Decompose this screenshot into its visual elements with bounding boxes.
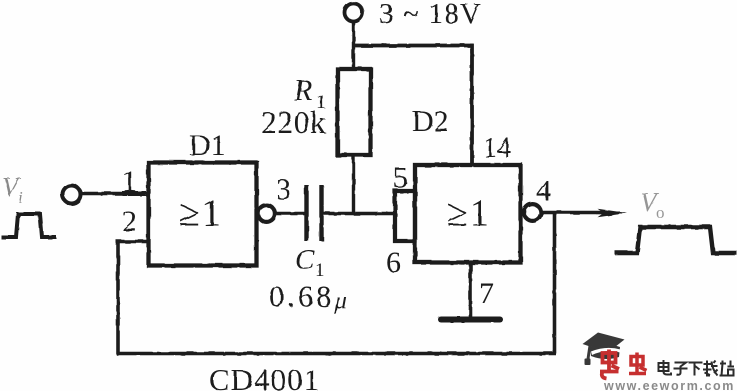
zi (674, 363, 688, 375)
wire bubble to C1 (275, 212, 305, 215)
D2 input tie bracket pins 5,6 (395, 191, 415, 241)
label Vo (640, 187, 665, 222)
svg-text:≥1: ≥1 (447, 193, 491, 235)
D1 output bubble pin 3 (258, 205, 275, 222)
pin 1 tick (122, 191, 146, 196)
zhan (720, 361, 735, 376)
wire R1 bottom to node (352, 155, 355, 214)
svg-text:14: 14 (483, 133, 511, 164)
svg-text:5: 5 (393, 162, 408, 195)
wire C1 to D2 inputs (323, 212, 395, 215)
red worm char 1 (600, 350, 647, 379)
label Vi (2, 172, 23, 207)
svg-text:2: 2 (122, 205, 137, 238)
svg-text:3: 3 (276, 173, 291, 206)
svg-text:www.eeworm.com: www.eeworm.com (603, 379, 735, 391)
svg-text:≥1: ≥1 (179, 193, 223, 235)
capacitor C1 (304, 185, 308, 241)
resistor R1 (338, 69, 371, 155)
svg-text:0.68μ: 0.68μ (269, 280, 350, 315)
pin 7 wire (469, 263, 473, 319)
nor gate D1 (149, 163, 257, 266)
nor gate D2 (415, 165, 521, 263)
feedback wire left vertical (116, 242, 120, 356)
wire input to D1 pin 1 (81, 192, 148, 196)
power terminal (345, 4, 363, 22)
red worm char 2 (629, 353, 647, 374)
feedback wire bottom (117, 352, 557, 356)
graduation cap (583, 333, 625, 366)
output waveform (615, 227, 737, 253)
chinese site name (659, 360, 735, 376)
svg-text:7: 7 (479, 277, 494, 310)
svg-text:6: 6 (386, 246, 401, 279)
svg-text:o: o (656, 203, 665, 222)
wire power down to R1 (352, 21, 355, 69)
input terminal Vi (63, 186, 81, 204)
watermark logo (583, 333, 736, 391)
output wire (541, 211, 602, 214)
D2 output bubble pin 4 (524, 204, 541, 221)
zai (703, 361, 718, 376)
feedback wire right vertical (553, 213, 557, 354)
svg-text:D2: D2 (412, 105, 449, 138)
svg-text:4: 4 (536, 174, 551, 207)
xia (689, 363, 703, 376)
ground (441, 317, 500, 323)
output arrow (596, 212, 620, 215)
input waveform (1, 214, 56, 237)
svg-text:C: C (295, 244, 315, 276)
svg-text:1: 1 (315, 260, 325, 281)
svg-text:D1: D1 (189, 129, 226, 162)
svg-text:3 ~ 18V: 3 ~ 18V (379, 0, 482, 30)
wire down to D2 pin 14 (470, 44, 474, 165)
svg-text:i: i (18, 188, 23, 207)
pin 2 wire (116, 240, 148, 244)
dian (659, 360, 672, 375)
svg-text:R: R (293, 74, 312, 107)
svg-text:CD4001: CD4001 (209, 362, 320, 391)
svg-text:220k: 220k (261, 105, 326, 140)
wire branch to pin 14 (354, 44, 474, 48)
